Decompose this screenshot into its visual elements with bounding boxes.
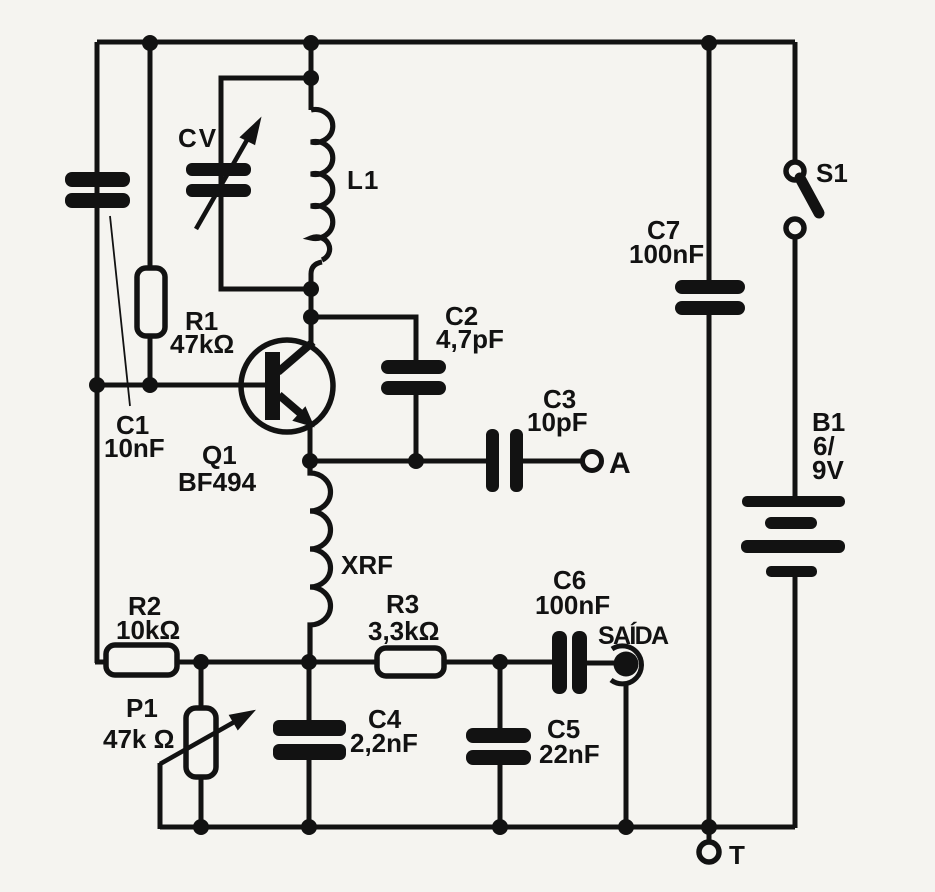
capacitor C1	[65, 172, 130, 208]
svg-text:L1: L1	[347, 165, 379, 195]
svg-text:4,7pF: 4,7pF	[436, 324, 504, 354]
svg-text:10pF: 10pF	[527, 407, 588, 437]
svg-text:P1: P1	[126, 693, 158, 723]
label R3 value	[368, 589, 439, 646]
wire S1 top feed	[793, 42, 798, 163]
node top rail R1	[142, 35, 158, 51]
wire R1 bottom stub	[148, 334, 153, 385]
resistor R1	[137, 268, 165, 336]
wire XRF bottom to C4	[307, 660, 312, 722]
node CV top	[303, 70, 319, 86]
svg-text:2,2nF: 2,2nF	[350, 728, 418, 758]
wire bottom rail	[160, 825, 795, 830]
wire left rail to R2	[95, 660, 108, 665]
wire C6 to SAIDA	[586, 661, 616, 666]
capacitor C2	[381, 360, 446, 395]
wire C2 bottom stub	[414, 393, 419, 461]
inductor L1	[311, 110, 333, 261]
wire C2 branch horizontal	[311, 317, 416, 362]
wire S1 to battery	[793, 237, 798, 497]
capacitor C7	[675, 280, 745, 315]
wire R1 top stub	[148, 42, 153, 270]
svg-text:SAÍDA: SAÍDA	[598, 621, 669, 650]
wire left rail	[95, 42, 100, 663]
svg-text:A: A	[609, 447, 631, 480]
wire top rail	[97, 40, 795, 45]
connector SAIDA	[611, 646, 641, 684]
wire L1 top feed	[309, 42, 314, 110]
svg-text:BF494: BF494	[178, 467, 257, 497]
wire mid row R2 to R3	[177, 660, 378, 665]
node top rail C7	[701, 35, 717, 51]
label C7 value	[629, 215, 704, 269]
node CV bottom	[303, 281, 319, 297]
svg-text:CV: CV	[178, 123, 218, 153]
battery B1	[741, 496, 845, 577]
resistor R2	[106, 645, 177, 675]
label C2 value	[436, 301, 504, 354]
potentiometer P1	[186, 708, 216, 777]
label B1 value	[812, 407, 845, 485]
node rail C5	[492, 819, 508, 835]
node base R1	[142, 377, 158, 393]
label C6 value	[535, 565, 610, 620]
wire P1 bottom stub	[199, 776, 204, 829]
node C5 top	[492, 654, 508, 670]
svg-text:Q1: Q1	[202, 440, 237, 470]
svg-text:22nF: 22nF	[539, 739, 600, 769]
label C1 value	[104, 410, 165, 463]
label C4 value	[350, 704, 418, 758]
svg-text:100nF: 100nF	[629, 239, 704, 269]
label C5 value	[539, 714, 600, 769]
node rail SAIDA	[618, 819, 634, 835]
wire C5 top stub	[498, 662, 503, 729]
node base left rail	[89, 377, 105, 393]
node R2 P1	[193, 654, 209, 670]
wire L1 bottom hook to collector	[311, 262, 322, 344]
label R2 value	[116, 591, 180, 645]
wire C4 bottom stub	[307, 759, 312, 829]
svg-text:10kΩ: 10kΩ	[116, 615, 180, 645]
svg-text:10nF: 10nF	[104, 433, 165, 463]
P1 arrow	[160, 712, 252, 764]
label Q1 value	[178, 440, 257, 497]
node collector C2	[303, 309, 319, 325]
node C2 emitter row	[408, 453, 424, 469]
wire C7 lower	[707, 314, 712, 827]
svg-text:47kΩ: 47kΩ	[170, 329, 234, 359]
C1 pointer line	[110, 216, 130, 406]
wire SAIDA down	[624, 682, 629, 827]
capacitor C3	[486, 429, 523, 492]
wire base feed	[95, 383, 268, 388]
capacitor C6	[552, 631, 587, 694]
node rail C4	[301, 819, 317, 835]
capacitor C5	[466, 728, 531, 765]
wire P1 wiper down	[158, 763, 163, 829]
svg-text:XRF: XRF	[341, 550, 393, 580]
inductor XRF	[310, 461, 331, 663]
variable capacitor CV	[186, 163, 251, 197]
label R1 value	[170, 306, 234, 359]
svg-text:100nF: 100nF	[535, 590, 610, 620]
node XRF row	[301, 654, 317, 670]
node top rail L1	[303, 35, 319, 51]
CV arrow	[196, 121, 259, 229]
wire emitter to row	[308, 424, 313, 461]
svg-text:S1: S1	[816, 158, 848, 188]
label C3 value	[527, 384, 588, 437]
label P1 value	[103, 693, 174, 754]
wire emitter row to C3	[308, 459, 488, 464]
terminal T	[699, 842, 719, 862]
capacitor C4	[273, 720, 346, 760]
wire C5 bottom stub	[498, 764, 503, 829]
wire C3 to terminal A	[522, 459, 582, 464]
wire mid row R3 to C6	[443, 660, 554, 665]
wire battery to bottom rail	[793, 576, 798, 828]
wire T stub	[707, 827, 712, 842]
svg-text:T: T	[729, 840, 745, 870]
svg-text:3,3kΩ: 3,3kΩ	[368, 616, 439, 646]
resistor R3	[377, 648, 444, 676]
svg-text:9V: 9V	[812, 455, 844, 485]
transistor Q1	[241, 340, 333, 432]
switch S1	[786, 162, 819, 237]
wire C7 upper	[707, 42, 712, 281]
wire P1 top stub	[199, 662, 204, 709]
node rail T	[701, 819, 717, 835]
svg-text:47k Ω: 47k Ω	[103, 724, 174, 754]
wire CV branch loop	[221, 78, 311, 289]
node rail P1	[193, 819, 209, 835]
svg-text:R3: R3	[386, 589, 419, 619]
node emitter	[302, 453, 318, 469]
terminal A	[583, 452, 602, 471]
